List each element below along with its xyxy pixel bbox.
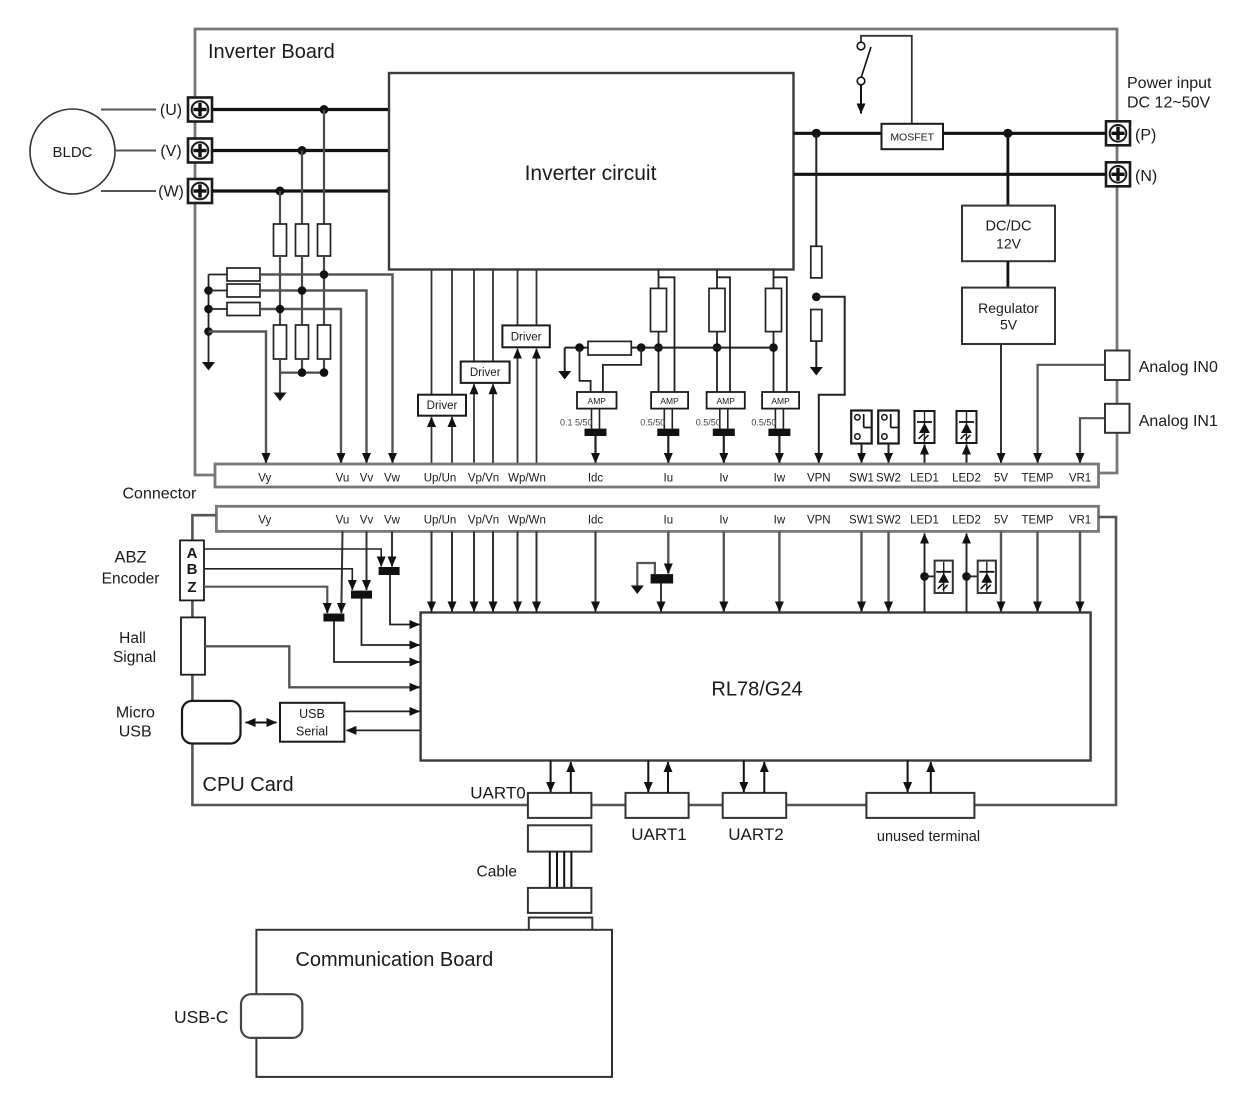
svg-text:Up/Un: Up/Un [424,515,457,527]
svg-text:Vv: Vv [360,515,374,527]
svg-text:Iv: Iv [719,473,728,485]
svg-text:Serial: Serial [296,725,328,739]
svg-text:Iw: Iw [774,473,786,485]
svg-text:(U): (U) [160,102,182,119]
svg-text:Vu: Vu [336,473,350,485]
svg-text:LED1: LED1 [910,515,939,527]
svg-text:Iu: Iu [664,473,674,485]
svg-text:Inverter circuit: Inverter circuit [525,162,657,185]
svg-text:ABZ: ABZ [114,549,146,567]
svg-text:Micro: Micro [116,705,155,722]
svg-text:Analog IN1: Analog IN1 [1139,413,1218,430]
svg-text:Up/Un: Up/Un [424,473,457,485]
svg-text:TEMP: TEMP [1022,473,1054,485]
svg-text:0.5/50: 0.5/50 [640,418,665,428]
svg-text:0.1 5/50: 0.1 5/50 [560,418,593,428]
svg-text:MOSFET: MOSFET [890,132,934,144]
svg-text:VR1: VR1 [1069,515,1091,527]
svg-text:Inverter Board: Inverter Board [208,41,335,63]
svg-text:Vp/Vn: Vp/Vn [468,473,499,485]
svg-text:AMP: AMP [588,396,607,406]
svg-text:Analog IN0: Analog IN0 [1139,359,1218,376]
svg-text:Idc: Idc [588,515,604,527]
svg-text:0.5/50: 0.5/50 [696,418,721,428]
svg-text:Signal: Signal [113,649,156,666]
svg-text:AMP: AMP [716,396,735,406]
svg-text:AMP: AMP [771,396,790,406]
svg-text:Driver: Driver [427,400,458,412]
svg-text:Regulator: Regulator [978,300,1039,316]
svg-text:USB: USB [299,707,325,721]
svg-text:Cable: Cable [477,864,518,881]
svg-text:Vw: Vw [384,473,401,485]
svg-text:unused terminal: unused terminal [877,829,980,845]
svg-text:Iv: Iv [719,515,728,527]
svg-text:LED2: LED2 [952,515,981,527]
svg-text:Vw: Vw [384,515,401,527]
svg-text:Iu: Iu [664,515,674,527]
svg-text:Power input: Power input [1127,75,1212,92]
svg-text:DC 12~50V: DC 12~50V [1127,95,1210,112]
svg-text:A: A [187,545,198,562]
svg-text:Vv: Vv [360,473,374,485]
svg-text:AMP: AMP [660,396,679,406]
svg-text:DC/DC: DC/DC [986,219,1032,235]
svg-text:Idc: Idc [588,473,604,485]
svg-text:LED1: LED1 [910,473,939,485]
svg-text:SW1: SW1 [849,473,874,485]
svg-text:Vp/Vn: Vp/Vn [468,515,499,527]
svg-text:USB-C: USB-C [174,1007,228,1027]
svg-text:(W): (W) [158,184,184,201]
svg-text:Encoder: Encoder [102,571,160,588]
svg-text:12V: 12V [996,236,1022,252]
svg-text:B: B [187,561,198,578]
svg-text:SW1: SW1 [849,515,874,527]
svg-text:UART0: UART0 [470,784,525,803]
svg-text:VPN: VPN [807,473,831,485]
svg-text:Wp/Wn: Wp/Wn [508,473,546,485]
svg-text:BLDC: BLDC [52,144,92,161]
svg-text:5V: 5V [994,473,1008,485]
svg-text:Wp/Wn: Wp/Wn [508,515,546,527]
svg-text:Z: Z [187,579,196,596]
svg-text:(N): (N) [1135,168,1157,185]
svg-text:5V: 5V [1000,317,1018,333]
svg-text:Vy: Vy [258,515,271,527]
svg-text:(P): (P) [1135,127,1156,144]
svg-text:UART1: UART1 [631,825,686,844]
svg-text:CPU Card: CPU Card [203,774,294,796]
svg-text:Connector: Connector [123,486,197,503]
svg-text:5V: 5V [994,515,1008,527]
svg-text:UART2: UART2 [728,825,783,844]
svg-text:VPN: VPN [807,515,831,527]
svg-text:Hall: Hall [119,630,146,647]
svg-text:Communication Board: Communication Board [295,949,493,971]
svg-text:TEMP: TEMP [1022,515,1054,527]
svg-text:(V): (V) [160,143,181,160]
svg-text:LED2: LED2 [952,473,981,485]
svg-text:Vu: Vu [336,515,350,527]
svg-text:SW2: SW2 [876,473,901,485]
svg-text:VR1: VR1 [1069,473,1091,485]
svg-text:Driver: Driver [470,367,501,379]
svg-text:SW2: SW2 [876,515,901,527]
svg-text:Vy: Vy [258,473,271,485]
svg-text:Iw: Iw [774,515,786,527]
svg-text:Driver: Driver [511,331,542,343]
svg-text:0.5/50: 0.5/50 [751,418,776,428]
svg-text:USB: USB [119,724,152,741]
svg-text:RL78/G24: RL78/G24 [711,679,802,701]
